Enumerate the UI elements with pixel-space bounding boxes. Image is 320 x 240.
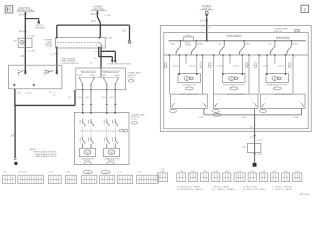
dashed coupling line <box>80 130 118 132</box>
svg-text:2: 2 <box>218 99 219 101</box>
upper contact 91.0 <box>90 119 92 122</box>
connector box D-02 <box>282 173 290 182</box>
svg-text:Lg : L-GREEN O : ORANGE: Lg : L-GREEN O : ORANGE <box>212 188 235 191</box>
page tab 2 <box>301 5 309 12</box>
wire: right to ref arrow 1 <box>99 56 113 58</box>
connector box C-30 <box>49 175 62 183</box>
feed entry inside box <box>100 68 102 77</box>
svg-text:1: 1 <box>72 91 74 93</box>
svg-text:-J/B: -J/B <box>13 40 17 42</box>
motor box: SLIDE MOTOR <box>178 74 201 83</box>
upper contact 106.8 <box>106 119 108 122</box>
switch column at 196.1 <box>195 40 196 41</box>
svg-text:M: M <box>110 150 112 154</box>
svg-text:2: 2 <box>96 45 98 47</box>
svg-text:OPEN: OPEN <box>90 75 96 77</box>
svg-text:SWITCH: SWITCH <box>274 31 283 33</box>
intermediate connector box <box>247 144 261 153</box>
wire: relay pin 1 down to support switch box <box>100 48 102 68</box>
power seat switch outer box <box>160 26 311 132</box>
lower detail box <box>171 94 208 108</box>
svg-text:DOWN: DOWN <box>244 43 251 45</box>
svg-text:C-36: C-36 <box>86 172 90 174</box>
reference arrowhead 2 <box>114 60 117 63</box>
svg-text:C-35: C-35 <box>66 172 70 174</box>
svg-text:UP: UP <box>218 43 221 45</box>
coupling connector oval 2 <box>124 129 128 131</box>
wire: horizontal feed to relay and branch <box>57 24 130 26</box>
ground bus inside outer box <box>204 114 302 116</box>
switch box 1 outline <box>8 65 62 89</box>
svg-text:C-37: C-37 <box>104 172 108 174</box>
svg-text:(C-72): (C-72) <box>257 140 263 142</box>
svg-text:2-B: 2-B <box>250 137 254 139</box>
motor connector oval left <box>84 162 91 165</box>
svg-text:2-B: 2-B <box>122 31 126 33</box>
coupler dash upper 82.7 <box>82 126 84 130</box>
support switch arm at 91.0 <box>91 78 94 84</box>
support switch arm at 82.7 <box>80 78 83 84</box>
svg-text:4-B: 4-B <box>243 147 247 149</box>
svg-text:1: 1 <box>250 57 251 59</box>
connector block on bus <box>184 37 194 41</box>
svg-text:2: 2 <box>175 99 176 101</box>
coupler dash lower 115.2 <box>114 131 116 136</box>
svg-text:2-L: 2-L <box>94 58 98 60</box>
upper contact 82.7 <box>82 119 84 122</box>
wire: ground drop center <box>254 115 256 163</box>
wire: branch right <box>25 18 38 20</box>
svg-text:1-25B: 1-25B <box>293 117 299 119</box>
wire: thick horizontal ground link <box>15 104 75 106</box>
svg-text:20-A: 20-A <box>200 20 205 23</box>
wire to motor left pin <box>178 55 180 74</box>
wire to lower box (outer left) <box>213 55 215 94</box>
wire: branch right to ref arrow 2 <box>101 50 115 52</box>
wire: up to support switch box <box>74 90 76 105</box>
stub wire <box>185 55 187 64</box>
svg-text:M: M <box>274 78 276 80</box>
switch column at 291.4 <box>291 40 292 41</box>
svg-text:Sb : SKY BLUE W : WHITE: Sb : SKY BLUE W : WHITE <box>243 189 266 191</box>
drop to ground bus <box>301 108 303 115</box>
lower box oval <box>170 110 177 113</box>
svg-text:20-B: 20-B <box>91 21 96 23</box>
svg-text:C-30: C-30 <box>49 172 53 174</box>
svg-text:1 25L-B: 1 25L-B <box>278 65 285 67</box>
svg-text:B: B <box>209 27 211 29</box>
svg-text:(C-22): (C-22) <box>25 93 31 95</box>
coupler dash lower 82.7 <box>82 131 84 136</box>
switch column at 224.2 <box>224 40 225 41</box>
lower box corner contact right <box>254 103 257 106</box>
lower contact 91.0 <box>90 137 92 140</box>
svg-text:2: 2 <box>260 57 261 59</box>
oval on ground bus <box>213 113 221 116</box>
coupler dash lower 91.0 <box>90 131 92 136</box>
connector box C-72 <box>248 173 256 182</box>
coupler dash upper 91.0 <box>90 126 92 130</box>
page tab 1 <box>5 6 13 13</box>
wire to lower box (outer right) <box>292 55 294 94</box>
switch column at 244.2 <box>244 40 245 41</box>
svg-text:(C-30): (C-30) <box>106 37 112 39</box>
battery bus inside switch <box>169 40 306 42</box>
svg-text:C-02: C-02 <box>137 172 141 174</box>
connector box C-30 <box>201 173 209 182</box>
svg-text:1 (C-30): 1 (C-30) <box>27 51 35 53</box>
svg-text:2-4: 2-4 <box>53 95 57 97</box>
circuit breaker (filled) <box>38 21 40 23</box>
svg-text:BREAKER: BREAKER <box>35 26 45 29</box>
svg-text:20-A: 20-A <box>19 14 24 17</box>
motor connector oval <box>185 87 193 90</box>
node: feed joins bus <box>206 40 208 42</box>
svg-text:30-A: 30-A <box>91 13 96 16</box>
svg-text:1-25LB: 1-25LB <box>217 65 224 67</box>
motor symbol <box>272 77 278 81</box>
svg-text:C-72: C-72 <box>250 171 254 173</box>
ground symbol (filled square) <box>14 162 17 165</box>
svg-text:2: 2 <box>170 57 171 59</box>
box L top pin marks <box>82 112 83 114</box>
switch column at 180.6 <box>180 40 181 41</box>
support switch top stub at 91.0 <box>93 77 95 79</box>
svg-text:(7)-4: (7)-4 <box>77 97 82 99</box>
wire to motor left pin <box>222 55 224 74</box>
svg-text:C-30: C-30 <box>203 171 207 173</box>
svg-text:* : C-ROUTE 2 : GAUGE: * : C-ROUTE 2 : GAUGE <box>272 188 293 191</box>
svg-text:(C-02): (C-02) <box>257 154 263 156</box>
support switch top stub at 82.7 <box>79 77 81 79</box>
internal feed line b <box>104 76 119 78</box>
wire: relay pin 2 down <box>98 48 100 56</box>
connector box C-35 <box>65 175 76 183</box>
connector bullet end <box>128 40 131 43</box>
coupler dash lower 106.8 <box>106 131 108 136</box>
wire to motor left pin <box>266 55 268 74</box>
svg-text:C-06: C-06 <box>179 171 183 173</box>
svg-text:1-25B: 1-25B <box>241 117 247 119</box>
connector box C-02 <box>137 175 159 183</box>
svg-text:REAR: REAR <box>197 42 203 45</box>
lower detail box <box>214 94 259 108</box>
svg-text:2: 2 <box>265 99 266 101</box>
connector box D-03 <box>293 173 302 182</box>
svg-text:2-B: 2-B <box>250 126 254 128</box>
coupler dash upper 106.8 <box>106 126 108 130</box>
svg-text:C-05 C-06: C-05 C-06 <box>18 172 27 174</box>
motor symbol small oval <box>278 77 281 80</box>
connector tick 2 <box>24 30 27 32</box>
ground symbol right (filled square) <box>253 163 257 167</box>
pin glyph right <box>289 63 291 68</box>
svg-text:(B-13): (B-13) <box>186 35 192 37</box>
fuse circle symbol <box>20 41 24 45</box>
stub wire <box>274 55 276 64</box>
svg-text:1-25LB: 1-25LB <box>173 65 180 67</box>
wire: down to relay <box>99 23 101 38</box>
wire support sw output 115.2 <box>114 84 116 112</box>
motor connector oval right <box>107 162 114 165</box>
svg-text:(7)-4: (7)-4 <box>109 97 114 99</box>
switch column at 274.9 <box>274 40 275 41</box>
wire: branch down at right end <box>129 25 131 40</box>
svg-text:2: 2 <box>304 7 307 12</box>
svg-text:1 25L-B: 1 25L-B <box>233 65 240 67</box>
svg-text:2: 2 <box>93 125 94 127</box>
wire: box1 to ground bus <box>14 89 16 106</box>
connector box C-05 C-06 <box>18 175 44 183</box>
motor connector oval <box>273 87 281 90</box>
motor box: REAR HEIGHT MOTOR <box>266 74 289 83</box>
pin glyph right <box>246 63 248 68</box>
pin glyph right <box>200 63 202 68</box>
svg-text:L=LEFT HAND DRIVE: L=LEFT HAND DRIVE <box>274 93 293 96</box>
wire to lower box (outer left) <box>168 55 170 94</box>
wire: junction block down to switch box 1 <box>24 12 26 71</box>
lower box corner contact right <box>203 103 206 106</box>
support switch top stub at 115.2 <box>117 77 119 79</box>
drop to ground bus <box>254 108 256 115</box>
svg-text:Br : BROWN-GR Gr : GRAY-GR: Br : BROWN-GR Gr : GRAY-GR <box>177 188 203 191</box>
relay top pin marks <box>56 37 57 39</box>
svg-text:1-B: 1-B <box>17 93 21 95</box>
wire support sw output 82.7 <box>82 84 84 112</box>
svg-text:FRONT HEIGHT MOTOR: FRONT HEIGHT MOTOR <box>223 84 245 86</box>
wire support sw output 106.8 <box>106 84 108 112</box>
lower box corner contact left <box>262 103 265 106</box>
svg-text:DOWN: DOWN <box>292 43 299 45</box>
svg-text:(C-35): (C-35) <box>46 46 52 48</box>
svg-text:1: 1 <box>252 102 253 104</box>
svg-text:D-03: D-03 <box>295 171 299 173</box>
small oval under label <box>132 122 138 125</box>
svg-text:(C-30): (C-30) <box>104 15 110 17</box>
wire support sw output 91.0 <box>90 84 92 112</box>
svg-text:C-36: C-36 <box>225 171 229 173</box>
svg-text:1: 1 <box>79 122 80 124</box>
connector oval C-36 <box>83 170 92 174</box>
wire: diagonal jog <box>97 17 100 23</box>
svg-text:(C-22): (C-22) <box>131 119 137 121</box>
lower box oval <box>213 110 220 113</box>
wire: main feed into power seat switch <box>206 17 208 41</box>
svg-text:→ POWER WINDOW: → POWER WINDOW <box>59 63 79 65</box>
svg-text:2: 2 <box>117 125 118 127</box>
wire: fusible link down <box>96 11 98 17</box>
lower box corner contact left <box>215 103 218 106</box>
svg-text:M: M <box>186 78 188 80</box>
drop to ground bus <box>203 108 205 115</box>
svg-text:M: M <box>86 150 88 154</box>
node: junction with horizontal feed <box>100 24 102 26</box>
coupler dash upper 115.2 <box>114 126 116 130</box>
stub wire <box>229 55 231 64</box>
svg-text:C-06: C-06 <box>161 171 165 173</box>
box1 bottom-left exit arrow <box>13 84 16 86</box>
svg-text:1: 1 <box>201 102 202 104</box>
motor connector oval <box>230 87 238 90</box>
pin glyph left <box>254 63 256 68</box>
svg-text:L=LEFT HAND DRIVE: L=LEFT HAND DRIVE <box>180 93 199 96</box>
wire to lower box (outer right) <box>201 55 203 94</box>
svg-text:SLIDE MOTOR: SLIDE MOTOR <box>183 84 197 86</box>
svg-text:UP: UP <box>269 43 272 45</box>
connector ring <box>14 158 16 160</box>
svg-text:C-02: C-02 <box>261 171 265 173</box>
svg-text:1: 1 <box>88 122 89 124</box>
connector box C-36 <box>82 175 97 183</box>
lower contact 115.2 <box>114 137 116 140</box>
lower contact 106.8 <box>106 137 108 140</box>
svg-text:M: M <box>230 78 232 80</box>
svg-text:1: 1 <box>203 57 204 59</box>
svg-text:C-35: C-35 <box>214 171 218 173</box>
box1 switch element left <box>17 70 19 77</box>
fusible link arrow <box>205 15 208 18</box>
svg-text:1-25LB: 1-25LB <box>262 65 269 67</box>
internal feed line a <box>80 76 95 78</box>
divider line (switch section bottom) <box>164 54 308 56</box>
upper contact 115.2 <box>114 119 116 122</box>
connector box C-05 <box>158 173 168 182</box>
svg-text:D-01: D-01 <box>272 171 276 173</box>
svg-text:D-02: D-02 <box>284 171 288 173</box>
motor symbol small oval <box>234 77 237 80</box>
svg-text:AW7954GB: AW7954GB <box>300 193 310 196</box>
box S label oval <box>128 80 133 82</box>
wire: down to ground <box>14 105 16 157</box>
motor symbol small oval <box>190 77 193 80</box>
svg-text:C-05: C-05 <box>295 31 299 33</box>
wire to lower box (outer right) <box>248 55 250 94</box>
power seat relay box <box>56 38 106 49</box>
coupling connector oval 1 <box>119 129 123 132</box>
svg-text:C-37: C-37 <box>238 171 242 173</box>
svg-text:POWER WINDOW RELAY: POWER WINDOW RELAY <box>107 62 132 65</box>
connector box C-37 <box>234 173 245 182</box>
wire to motor right pin <box>196 55 198 74</box>
relay switch arm diagonal <box>99 42 102 46</box>
svg-text:REAR: REAR <box>115 74 121 77</box>
svg-text:FWD: FWD <box>171 43 176 45</box>
svg-text:2-R: 2-R <box>20 56 24 58</box>
svg-text:(7)-1: (7)-1 <box>85 97 90 99</box>
support switch arm at 115.2 <box>115 78 118 84</box>
svg-text:L=LEFT HAND DRIVE: L=LEFT HAND DRIVE <box>227 93 246 96</box>
svg-text:DOWN: DOWN <box>185 44 192 46</box>
wire to lower box (outer left) <box>258 55 260 94</box>
wire: branch down <box>38 19 40 22</box>
wire: relay to switch box1 right pin <box>56 48 58 70</box>
motor box: FRONT HEIGHT MOTOR <box>223 74 246 83</box>
node: branch to circuit breaker <box>25 18 27 20</box>
svg-text:1 (C-30): 1 (C-30) <box>27 36 35 38</box>
fuse box in junction block <box>18 38 32 47</box>
side support motor box <box>80 148 96 156</box>
reference arrowhead 1 <box>111 60 114 63</box>
wire: down to relay coil pin <box>56 25 58 37</box>
lower box oval <box>260 110 267 113</box>
internal feed link <box>94 76 103 78</box>
connector box C-02 <box>259 173 267 182</box>
svg-text:2: 2 <box>214 57 215 59</box>
support switch box outline <box>76 68 126 90</box>
svg-text:1 25L-B: 1 25L-B <box>189 65 196 67</box>
connector box C-36 <box>223 173 231 182</box>
svg-text:(1): (1) <box>68 97 71 99</box>
svg-text:1: 1 <box>112 122 113 124</box>
connector box D-01 <box>270 173 278 182</box>
connector oval C-37 <box>101 170 110 174</box>
box1 switch element right <box>46 71 49 74</box>
connector box C-22 <box>3 175 16 183</box>
svg-text:←: ← <box>22 46 24 48</box>
lumbar support motor box <box>104 148 120 156</box>
wire to motor right pin <box>241 55 243 74</box>
power seat switch inner box <box>164 33 308 129</box>
svg-text:2-L: 2-L <box>94 51 98 53</box>
node: ground junction <box>14 105 16 107</box>
svg-text:FWD: FWD <box>102 75 107 77</box>
connector tick <box>24 14 27 16</box>
fusible link connector square <box>205 11 208 14</box>
box1 inner connector arrow <box>33 84 36 86</box>
svg-text:2-L: 2-L <box>90 62 94 64</box>
connector box C-72 <box>117 175 132 183</box>
lower contact 82.7 <box>82 137 84 140</box>
svg-text:C-22: C-22 <box>3 172 7 174</box>
relay contact dashed line <box>57 41 99 43</box>
wire to motor right pin <box>284 55 286 74</box>
svg-text:(7)-4: (7)-4 <box>101 97 106 99</box>
lumbar support switch box outline <box>74 112 129 164</box>
connector box C-22 <box>188 173 197 182</box>
svg-text:1: 1 <box>294 57 295 59</box>
svg-text:2-B: 2-B <box>10 136 14 138</box>
svg-text:C-72: C-72 <box>118 172 122 174</box>
svg-text:REAR HEIGHT MOTOR: REAR HEIGHT MOTOR <box>267 83 288 86</box>
connector box C-35 <box>212 173 220 182</box>
svg-text:1: 1 <box>299 102 300 104</box>
connector box C-06 <box>177 173 186 182</box>
svg-text:20-A: 20-A <box>19 30 24 33</box>
svg-text:(C-05): (C-05) <box>128 77 134 79</box>
svg-text:1-25B: 1-25B <box>198 117 204 119</box>
motor symbol <box>184 77 190 81</box>
motor symbol <box>229 77 235 81</box>
pin glyph left <box>165 63 167 68</box>
lower detail box <box>261 94 306 108</box>
svg-text:2: 2 <box>84 125 85 127</box>
support switch top stub at 106.8 <box>103 77 105 79</box>
support switch arm at 106.8 <box>104 78 107 84</box>
pin glyph left <box>209 63 211 68</box>
lower box corner contact left <box>172 103 175 106</box>
svg-text:C-22: C-22 <box>191 171 195 173</box>
lower box corner contact right <box>301 103 304 106</box>
relay bottom pin marks <box>56 46 57 48</box>
svg-text:1-Y: 1-Y <box>51 55 55 57</box>
svg-text:→ : SEAT ALARM SYSTEM: → : SEAT ALARM SYSTEM <box>32 155 57 158</box>
box S bottom edge pin marks <box>82 89 83 91</box>
connector box C-37 <box>100 175 115 183</box>
